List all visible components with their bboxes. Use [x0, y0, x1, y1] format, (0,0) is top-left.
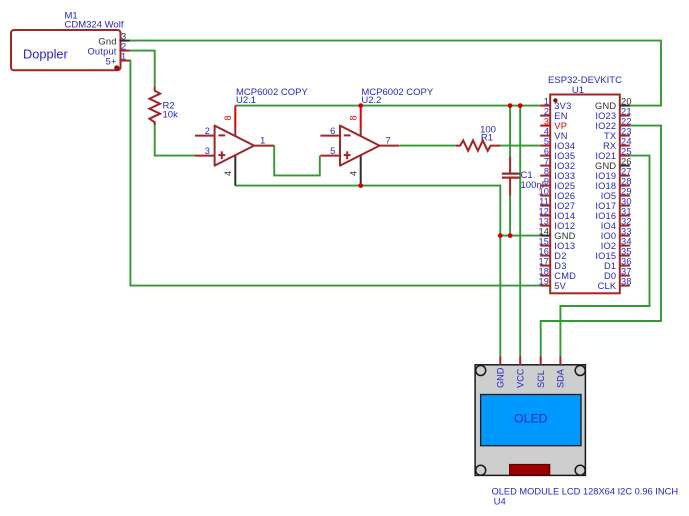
svg-text:GND: GND	[595, 161, 616, 171]
wire: 3V3 rail U2.1 pin8 to ESP32 pin1	[235, 105, 540, 107]
svg-text:3: 3	[205, 146, 210, 156]
U1 pin 9 IO25	[540, 176, 575, 191]
doppler module M1 box	[11, 30, 121, 70]
svg-text:IO27: IO27	[554, 201, 575, 211]
svg-text:33: 33	[621, 226, 632, 236]
svg-text:32: 32	[621, 216, 632, 226]
op-amp U2.1 output pin 1	[254, 136, 274, 146]
U1 pin 25 IO21	[595, 146, 631, 161]
svg-text:12: 12	[538, 206, 549, 216]
op-amp U2.1 inverting input pin 2	[195, 126, 215, 136]
wire: C1 bottom to GND rail	[509, 196, 511, 236]
resistor R1 100	[456, 125, 500, 151]
wire: U2.2 output to R1 left	[400, 145, 456, 147]
OLED bottom connector	[510, 464, 550, 475]
svg-text:U2.2: U2.2	[361, 95, 381, 106]
op-amp U2.2 output pin 7	[380, 136, 400, 146]
OLED pin SCL	[536, 356, 546, 388]
OLED mounting hole top-left	[476, 366, 486, 376]
svg-text:13: 13	[538, 216, 549, 226]
op-amp U2.2 non-inverting input pin 5	[320, 146, 340, 156]
U1 pin 7 IO32	[540, 156, 575, 171]
svg-text:IO21: IO21	[595, 151, 616, 161]
svg-text:28: 28	[621, 176, 632, 186]
svg-text:21: 21	[621, 106, 632, 116]
svg-text:Gnd: Gnd	[98, 36, 116, 46]
OLED mounting hole top-right	[575, 366, 585, 376]
svg-text:2: 2	[121, 42, 126, 52]
wire: ESP32 IO21 to OLED SDA	[560, 156, 649, 357]
svg-text:D3: D3	[554, 261, 566, 271]
U1 pin 6 IO35	[540, 146, 575, 161]
wire: U2.1 output to U2.2 + input	[274, 146, 320, 176]
U1 pin 8 IO33	[540, 166, 575, 181]
svg-text:31: 31	[621, 206, 632, 216]
svg-text:IO16: IO16	[595, 211, 616, 221]
svg-text:IO33: IO33	[554, 171, 575, 181]
svg-text:7: 7	[544, 156, 549, 166]
svg-text:IO5: IO5	[601, 191, 617, 201]
svg-text:1: 1	[544, 96, 549, 106]
U1 pin 30 IO17	[595, 196, 631, 211]
OLED module U4 body	[475, 365, 585, 476]
wire: OLED VCC branch from 3V3 rail	[519, 106, 521, 357]
U1 pin 16 D2	[538, 246, 566, 261]
U1 pin 32 IO4	[601, 216, 632, 231]
svg-text:1: 1	[260, 136, 265, 146]
svg-text:U2.1: U2.1	[236, 95, 256, 106]
svg-text:26: 26	[621, 156, 632, 166]
svg-text:IO4: IO4	[601, 221, 617, 231]
OLED pin GND	[496, 356, 506, 388]
svg-text:1: 1	[121, 52, 126, 62]
svg-text:20: 20	[621, 96, 632, 106]
op-amp U2.1 plus mark	[218, 151, 225, 159]
op-amp U2.2 triangle body	[340, 126, 380, 166]
svg-text:22: 22	[621, 116, 632, 126]
svg-text:D2: D2	[554, 251, 566, 261]
resistor R2 10k	[149, 86, 178, 125]
OLED mounting hole bottom-left	[476, 465, 486, 475]
op-amp U2.1 non-inverting input pin 3	[195, 146, 215, 156]
junction U2.2 pin4 on GND rail	[358, 183, 363, 188]
svg-text:IO22: IO22	[595, 121, 616, 131]
wire: GND rail U2.1 pin4 to ESP32 pin14 GND	[235, 186, 540, 236]
svg-text:5V: 5V	[554, 281, 566, 291]
svg-text:R1: R1	[481, 132, 493, 143]
svg-text:7: 7	[386, 136, 391, 146]
U1 pin 12 IO14	[538, 206, 575, 221]
U1 pin 1 3V3	[540, 96, 571, 111]
svg-text:10: 10	[538, 186, 549, 196]
svg-text:U4: U4	[494, 497, 506, 508]
svg-text:IO19: IO19	[595, 171, 616, 181]
svg-text:5: 5	[330, 146, 335, 156]
svg-text:11: 11	[539, 196, 549, 206]
op-amp U2.2 plus mark	[344, 151, 351, 159]
svg-text:14: 14	[538, 226, 549, 236]
OLED screen	[481, 395, 581, 446]
svg-text:RX: RX	[603, 141, 616, 151]
svg-text:ESP32-DEVKITC: ESP32-DEVKITC	[548, 75, 622, 86]
junction C1 top on 3V3 rail	[508, 103, 513, 108]
M1 pin 2 Output	[87, 42, 129, 57]
svg-text:18: 18	[538, 266, 549, 276]
wire: M1 Output to R2 top	[130, 51, 155, 87]
svg-text:30: 30	[621, 196, 632, 206]
svg-text:34: 34	[621, 236, 632, 246]
svg-text:D1: D1	[604, 261, 616, 271]
op-amp U2.1 power pin 8	[223, 106, 235, 137]
svg-text:17: 17	[538, 256, 549, 266]
U1 pin 37 D0	[604, 266, 632, 281]
svg-text:24: 24	[621, 136, 632, 146]
op-amp U2.1 triangle body	[215, 126, 255, 166]
svg-text:VN: VN	[554, 131, 567, 141]
svg-text:8: 8	[349, 115, 359, 120]
U1 pin 34 IO2	[601, 236, 632, 251]
svg-text:OLED MODULE LCD 128X64 I2C 0.9: OLED MODULE LCD 128X64 I2C 0.96 INCH	[492, 487, 679, 497]
U1 pin 38 CLK	[598, 276, 632, 291]
svg-text:6: 6	[330, 126, 335, 136]
svg-text:IO13: IO13	[554, 241, 575, 251]
U1 pin 31 IO16	[595, 206, 631, 221]
U1 pin 36 D1	[604, 256, 632, 271]
svg-text:VP: VP	[554, 121, 567, 131]
U1 pin 33 IO0	[601, 226, 632, 241]
op-amp U2.2 inverting input pin 6	[320, 126, 340, 136]
svg-text:37: 37	[621, 266, 632, 276]
U1 pin 26 GND	[595, 156, 632, 171]
svg-text:IO2: IO2	[601, 241, 617, 251]
svg-text:EN: EN	[554, 111, 567, 121]
wire: ESP32 IO22 to OLED SCL	[541, 126, 661, 357]
svg-text:CMD: CMD	[554, 271, 576, 281]
svg-text:9: 9	[544, 176, 549, 186]
OLED mounting hole bottom-right	[575, 465, 585, 475]
svg-text:U1: U1	[572, 85, 584, 96]
OLED pin VCC	[516, 356, 526, 388]
wire: M1 Gnd to ESP32 pin20 GND	[130, 41, 661, 106]
svg-text:IO35: IO35	[554, 151, 575, 161]
op-amp U2.2 minus mark	[344, 134, 351, 136]
U1 pin 3 VP	[540, 116, 567, 130]
OLED pin SDA	[556, 356, 566, 388]
svg-text:3: 3	[544, 116, 549, 126]
svg-text:CLK: CLK	[598, 281, 617, 291]
U1 pin 14 GND	[538, 226, 575, 241]
U1 pin 10 IO26	[538, 186, 575, 201]
wire: R1 right to ESP32 pin5 VN	[500, 145, 540, 147]
svg-text:23: 23	[621, 126, 632, 136]
U1 pin 23 TX	[604, 126, 632, 141]
svg-text:Output: Output	[87, 46, 116, 56]
svg-text:38: 38	[621, 276, 632, 286]
svg-text:IO32: IO32	[554, 161, 575, 171]
U1 pin 27 IO19	[595, 166, 631, 181]
svg-text:IO14: IO14	[554, 211, 575, 221]
wire: OLED GND branch	[499, 236, 501, 357]
U1 pin 17 D3	[538, 256, 566, 271]
M1 first-pin marker dot	[114, 65, 119, 70]
svg-text:GND: GND	[554, 231, 575, 241]
svg-text:8: 8	[544, 166, 549, 176]
U1 pin 35 IO15	[595, 246, 631, 261]
svg-text:25: 25	[621, 146, 632, 156]
svg-text:IO17: IO17	[595, 201, 616, 211]
op-amp U2.2 power pin 8	[349, 106, 361, 137]
svg-text:IO25: IO25	[554, 181, 575, 191]
svg-text:SCL: SCL	[536, 370, 546, 388]
U1 pin 13 IO12	[538, 216, 575, 231]
junction U2.2 pin8 on 3V3 rail	[358, 103, 363, 108]
svg-text:IO34: IO34	[554, 141, 575, 151]
svg-text:19: 19	[538, 276, 549, 286]
svg-text:2: 2	[205, 126, 210, 136]
svg-text:4: 4	[349, 171, 359, 176]
svg-text:2: 2	[544, 106, 549, 116]
svg-text:Doppler: Doppler	[23, 47, 69, 62]
U1 pin 21 IO23	[595, 106, 631, 121]
U1 pin 11 IO27	[539, 196, 575, 211]
U1 pin 19 5V	[538, 276, 566, 291]
svg-text:OLED: OLED	[514, 412, 548, 426]
svg-text:3: 3	[121, 32, 126, 42]
U1 pin 22 IO22	[595, 116, 631, 130]
U1 pin 29 IO5	[601, 186, 632, 201]
svg-text:4: 4	[223, 171, 233, 176]
U1 pin 4 VN	[540, 126, 567, 141]
U1 first-pin marker dot	[553, 98, 557, 102]
svg-text:16: 16	[538, 246, 549, 256]
svg-text:IO12: IO12	[554, 221, 575, 231]
svg-text:4: 4	[544, 126, 549, 136]
svg-text:D0: D0	[604, 271, 616, 281]
U1 pin 18 CMD	[538, 266, 576, 281]
svg-text:15: 15	[538, 236, 549, 246]
svg-text:3V3: 3V3	[554, 101, 571, 111]
junction OLED GND branch	[498, 233, 503, 238]
svg-text:IO26: IO26	[554, 191, 575, 201]
svg-text:IO15: IO15	[595, 251, 616, 261]
U1 pin 24 RX	[603, 136, 632, 151]
svg-text:SDA: SDA	[556, 368, 566, 388]
U1 pin 20 GND	[595, 96, 632, 111]
svg-text:IO0: IO0	[601, 231, 617, 241]
svg-text:10k: 10k	[163, 110, 179, 121]
svg-text:27: 27	[621, 166, 632, 176]
U1 pin 28 IO18	[595, 176, 631, 191]
svg-text:GND: GND	[595, 101, 616, 111]
svg-text:IO23: IO23	[595, 111, 616, 121]
svg-text:35: 35	[621, 246, 632, 256]
junction C1 bottom on GND rail	[508, 233, 513, 238]
M1 pin 1 5+	[106, 52, 130, 67]
svg-text:VCC: VCC	[516, 368, 526, 388]
junction OLED VCC branch on 3V3 rail	[518, 103, 523, 108]
wire: R2 bottom to U2.1 + input	[155, 125, 195, 156]
U1 pin 2 EN	[540, 106, 567, 121]
svg-text:TX: TX	[604, 131, 616, 141]
svg-text:5: 5	[544, 136, 549, 146]
svg-text:IO18: IO18	[595, 181, 616, 191]
M1 pin 3 Gnd	[98, 32, 129, 47]
wire: C1 top branch	[509, 106, 511, 157]
svg-text:36: 36	[621, 256, 632, 266]
svg-text:8: 8	[223, 115, 233, 120]
op-amp U2.2 gnd pin 4	[349, 155, 361, 186]
svg-text:5+: 5+	[106, 56, 117, 66]
svg-text:29: 29	[621, 186, 632, 196]
svg-text:GND: GND	[496, 367, 506, 388]
op-amp U2.1 gnd pin 4	[223, 155, 235, 186]
ESP32-DEVKITC U1 box	[550, 95, 620, 294]
op-amp U2.1 minus mark	[218, 134, 225, 136]
svg-text:6: 6	[544, 146, 549, 156]
U1 pin 15 IO13	[538, 236, 575, 251]
U1 pin 5 IO34	[540, 136, 575, 151]
wire: M1 5+ to ESP32 pin19 5V	[130, 61, 540, 286]
capacitor C1 100nF	[502, 156, 548, 195]
svg-text:CDM324 Wolf: CDM324 Wolf	[65, 20, 124, 31]
